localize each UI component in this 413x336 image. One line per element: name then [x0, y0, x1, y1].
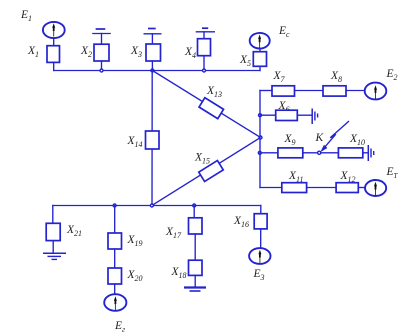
junction node row3: [258, 151, 261, 154]
wire X14 vertical: [151, 71, 153, 206]
junction node at X4: [203, 69, 206, 72]
junction node at X2: [100, 69, 103, 72]
resistor X6: [276, 110, 298, 120]
wire Ec to X5: [259, 48, 261, 51]
wire X21 to ground: [52, 241, 54, 253]
wire contact to X10: [321, 152, 338, 154]
ground below X21: [43, 253, 66, 259]
wire bus down to X21: [52, 206, 54, 224]
wire X6 to ground: [297, 114, 311, 116]
wire X8 to E2: [346, 90, 366, 92]
wire X10 to ground: [363, 152, 368, 154]
source E1: [43, 22, 65, 38]
junction node at bottom of triangle: [150, 204, 153, 207]
wire bus down to X16: [260, 206, 262, 214]
wire X2 to top bus: [101, 61, 103, 71]
wire top bus: [54, 70, 260, 72]
wire X9 to switch contact: [303, 152, 318, 154]
svg-text:K: K: [315, 132, 325, 144]
wire X11 to X12: [307, 187, 337, 189]
resistor X4: [198, 39, 211, 56]
source E3: [249, 248, 270, 264]
wire X4 to top bus: [203, 56, 205, 71]
wire ground to X3: [151, 34, 153, 44]
wire diagonal top node to apex: [152, 71, 260, 138]
ground right of X6: [312, 109, 317, 125]
arrow of source Ec: [258, 35, 261, 48]
wire E1 to X1: [53, 38, 55, 46]
wire X1 to top bus: [53, 62, 55, 70]
ground above X4: [196, 28, 215, 32]
wire X20 to Eg: [114, 284, 116, 294]
ground right of X10: [368, 145, 373, 161]
ground above X3: [144, 29, 162, 34]
wire X5 to top bus: [259, 66, 261, 70]
resistor X11: [282, 183, 307, 193]
wire X18 to ground: [194, 275, 196, 286]
wire row2 from bus to X6: [260, 114, 276, 116]
wire bus down to X17: [193, 206, 195, 218]
wire diagonal bottom node to apex: [152, 138, 261, 206]
resistor X21: [46, 223, 60, 240]
wire X16 to E3: [260, 229, 262, 248]
resistor X16: [254, 214, 267, 229]
wire row1 from bus to X7: [260, 90, 272, 92]
resistor X15: [199, 161, 223, 182]
ground below X18: [184, 288, 206, 292]
resistor X8: [323, 86, 346, 96]
arrow of source Eg: [114, 296, 117, 310]
source Eg: [104, 294, 126, 311]
switch K contact: [318, 151, 321, 154]
wire bottom bus: [53, 205, 261, 207]
wire bus down to X19: [114, 206, 116, 234]
wire X7 to X8: [295, 90, 324, 92]
wire X19 to X20: [114, 249, 116, 268]
wire ground to X4: [203, 32, 205, 39]
resistor X9: [278, 148, 303, 158]
arrow of source E1: [52, 23, 55, 36]
arrow of source E2: [374, 85, 377, 99]
wire X3 to top bus: [151, 61, 153, 71]
resistor X12: [336, 183, 358, 193]
wire X17 to X18: [194, 234, 196, 260]
wire ground to X2: [101, 34, 103, 45]
junction node at X17 branch: [193, 204, 196, 207]
resistor X2: [94, 44, 109, 61]
resistor X19: [108, 233, 122, 249]
resistor X10: [338, 148, 362, 158]
wire X12 to ET: [358, 187, 365, 189]
junction node at apex: [259, 136, 262, 139]
source ET: [365, 180, 386, 196]
ground above X2: [92, 29, 111, 34]
arrow of source ET: [374, 182, 377, 196]
wire right vertical bus: [259, 91, 261, 188]
resistor X3: [146, 44, 161, 61]
junction node at top of triangle: [151, 69, 154, 72]
resistor X18: [189, 260, 203, 275]
resistor X1: [47, 46, 60, 63]
source Ec: [250, 33, 270, 49]
junction node row2: [259, 114, 262, 117]
resistor X17: [189, 218, 203, 234]
arrow of source E3: [258, 250, 261, 263]
resistor X13: [199, 98, 223, 119]
switch K arrow: [320, 122, 348, 153]
junction node at X19 branch: [113, 204, 116, 207]
resistor X14: [146, 131, 160, 149]
resistor X5: [253, 52, 266, 67]
wire row3 from bus to X9: [260, 152, 278, 154]
source E2: [365, 83, 387, 100]
resistor X20: [108, 268, 122, 284]
resistor X7: [272, 86, 295, 96]
wire row4 from bus to X11: [260, 187, 282, 189]
